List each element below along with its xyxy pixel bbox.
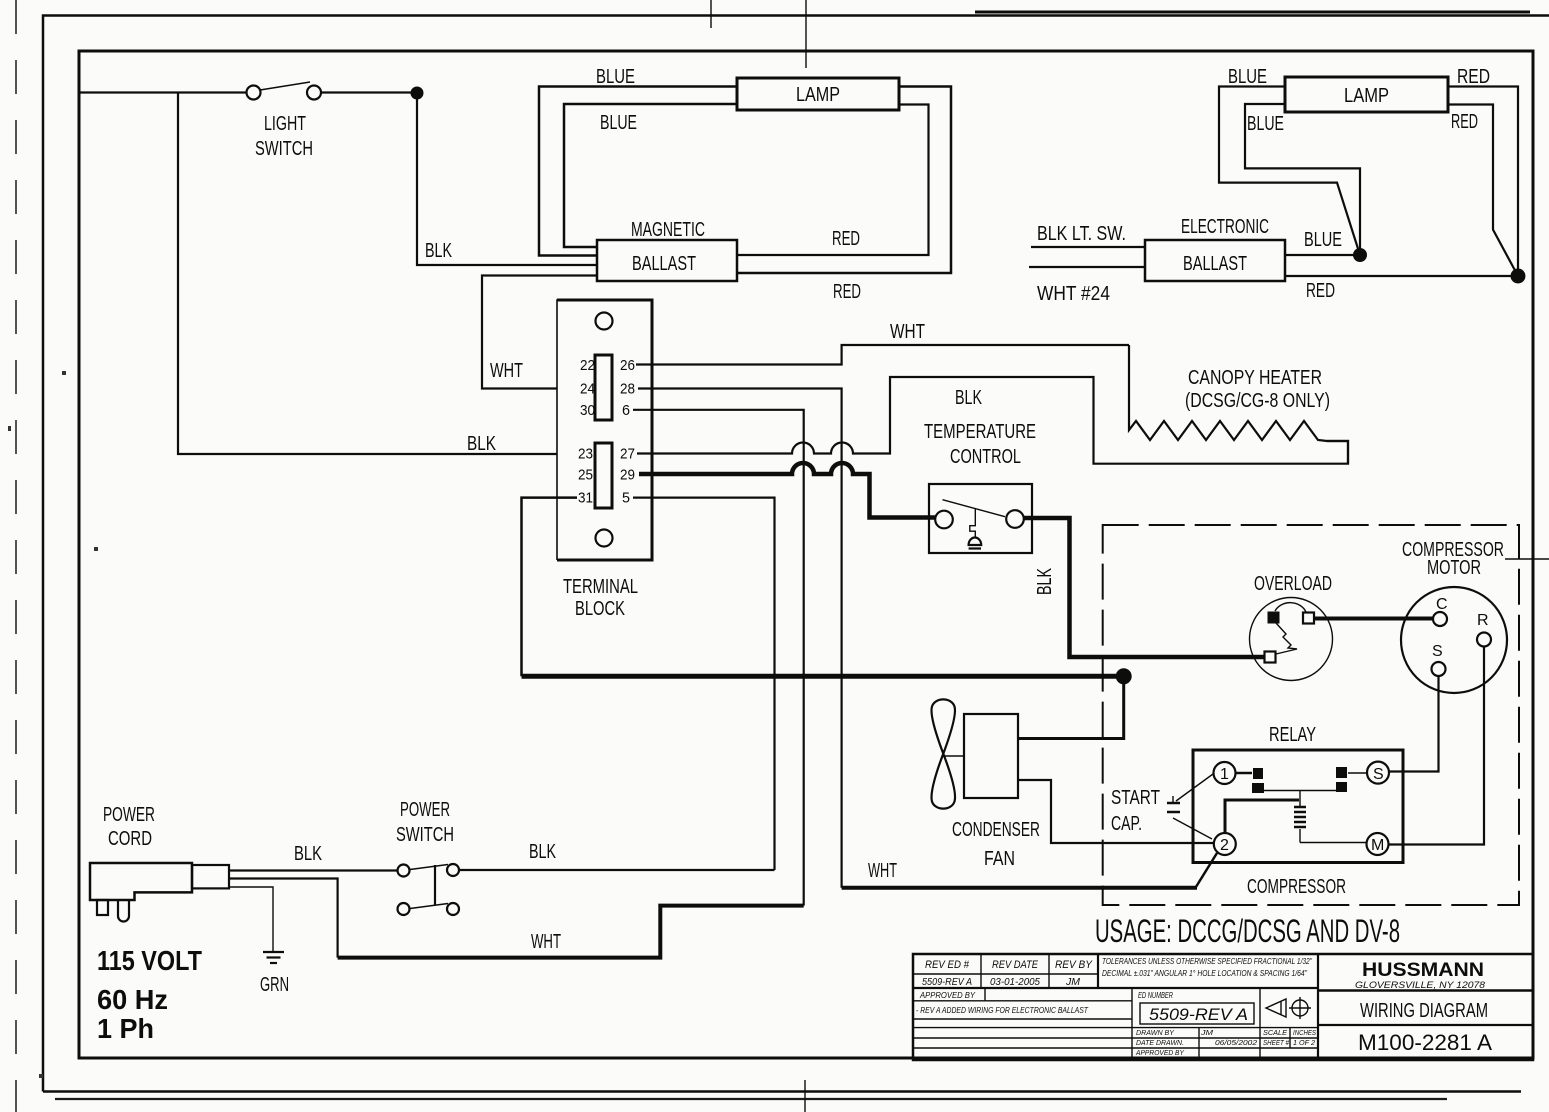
svg-text:M100-2281 A: M100-2281 A: [1358, 1030, 1492, 1055]
title block REV table values: [922, 977, 1081, 988]
label LIGHT SWITCH: [255, 113, 313, 160]
wire WHT magnetic ballast to pin 24: [482, 276, 597, 389]
svg-text:SHEET #: SHEET #: [1263, 1038, 1290, 1047]
svg-text:OVERLOAD: OVERLOAD: [1254, 573, 1332, 595]
svg-text:INCHES: INCHES: [1293, 1028, 1316, 1037]
power cord plug P1: [90, 863, 229, 922]
title block frame: [913, 954, 1533, 1060]
wire GRN power cord to ground: [229, 887, 273, 951]
relay contact 1 side: [1236, 768, 1264, 793]
svg-text:START: START: [1111, 787, 1160, 809]
junction dot light switch node: [411, 87, 424, 100]
svg-text:115 VOLT: 115 VOLT: [97, 945, 202, 976]
title block REV table headers: [925, 959, 1093, 971]
svg-text:BLUE: BLUE: [1228, 66, 1267, 88]
wire RED outer lamp1: [737, 87, 951, 274]
svg-text:1: 1: [1220, 766, 1229, 783]
wire heavy compressor common run: [522, 674, 1124, 679]
svg-text:1 Ph: 1 Ph: [97, 1013, 154, 1044]
svg-text:HUSSMANN: HUSSMANN: [1362, 960, 1484, 981]
svg-text:WHT: WHT: [531, 931, 561, 953]
scan specks: [8, 371, 98, 1078]
svg-text:LIGHT: LIGHT: [264, 113, 306, 135]
wire motor S to relay S: [1390, 676, 1439, 772]
svg-text:BLUE: BLUE: [600, 112, 637, 134]
svg-text:BLUE: BLUE: [1304, 229, 1342, 251]
title block projection symbol: [1266, 997, 1311, 1019]
svg-text:CONTROL: CONTROL: [950, 446, 1021, 468]
svg-text:MOTOR: MOTOR: [1427, 557, 1481, 579]
svg-text:WHT: WHT: [890, 321, 925, 343]
svg-text:C: C: [1436, 596, 1448, 613]
svg-text:25: 25: [578, 467, 593, 484]
svg-text:24: 24: [580, 381, 595, 398]
svg-text:DATE DRAWN.: DATE DRAWN.: [1136, 1038, 1184, 1047]
svg-text:CAP.: CAP.: [1111, 813, 1142, 835]
svg-text:BLUE: BLUE: [1247, 113, 1284, 135]
relay K1: [1193, 750, 1403, 863]
svg-text:POWER: POWER: [103, 804, 155, 826]
canopy heater element R1: [1129, 345, 1348, 464]
svg-text:CORD: CORD: [108, 828, 152, 850]
svg-text:WHT: WHT: [868, 860, 897, 882]
svg-text:06/05/2002: 06/05/2002: [1215, 1038, 1258, 1047]
svg-text:DECIMAL ±.031" ANGULAR 1° HOLE: DECIMAL ±.031" ANGULAR 1° HOLE LOCATION …: [1102, 969, 1308, 978]
svg-text:31: 31: [578, 490, 593, 507]
wire WHT pin 26 to canopy heater rail: [636, 345, 1129, 365]
junction dot red node lamp2: [1511, 269, 1526, 284]
relay contact bridge wire: [1264, 790, 1336, 792]
svg-text:BLK: BLK: [467, 433, 496, 455]
start capacitor C1: [1167, 774, 1213, 839]
svg-text:JM: JM: [1200, 1028, 1214, 1037]
svg-text:2: 2: [1220, 837, 1229, 854]
wire BLUE electronic ballast output: [1285, 254, 1360, 256]
svg-text:LAMP: LAMP: [1344, 85, 1389, 107]
relay coil: [1294, 791, 1306, 843]
svg-text:RELAY: RELAY: [1269, 724, 1316, 746]
svg-text:RED: RED: [832, 228, 860, 250]
wire BLUE outer lamp1: [539, 87, 737, 256]
wire light switch to junction: [321, 91, 417, 93]
svg-text:SWITCH: SWITCH: [255, 138, 313, 160]
wire BLK feed from left border to light switch: [80, 91, 247, 93]
wire pin 29 heavy to temperature control (with hops): [639, 463, 936, 518]
title block ED NUMBER cell: [1138, 991, 1254, 1024]
svg-text:USAGE: DCCG/DCSG AND DV-8: USAGE: DCCG/DCSG AND DV-8: [1095, 913, 1400, 949]
label START CAP.: [1111, 787, 1160, 835]
electronic ballast B2: [1145, 240, 1285, 281]
svg-text:S: S: [1432, 643, 1443, 660]
compressor motor M1: [1401, 587, 1507, 693]
svg-text:MAGNETIC: MAGNETIC: [631, 219, 705, 241]
wire pin 31 to compressor common: [522, 498, 578, 677]
svg-text:WIRING DIAGRAM: WIRING DIAGRAM: [1360, 1000, 1488, 1022]
wire pin 5 to power switch: [633, 498, 775, 870]
svg-text:TEMPERATURE: TEMPERATURE: [924, 421, 1036, 443]
svg-text:LAMP: LAMP: [796, 84, 840, 106]
wire overload to compressor motor C: [1315, 617, 1433, 621]
wire RED electronic ballast output: [1285, 275, 1518, 277]
wire compressor common node down to condenser fan: [1018, 676, 1124, 738]
svg-text:COMPRESSOR: COMPRESSOR: [1247, 876, 1346, 898]
svg-text:BLK: BLK: [955, 387, 982, 409]
wire pin 6 neutral run to power cord: [229, 410, 804, 958]
compressor dashed enclosure: [1103, 525, 1519, 905]
label COMPRESSOR MOTOR: [1402, 539, 1549, 579]
wire condenser fan to relay terminal 2: [1018, 780, 1214, 843]
svg-text:- REV A ADDED WIRING FOR ELECT: - REV A ADDED WIRING FOR ELECTRONIC BALL…: [916, 1006, 1089, 1015]
lamp L1: [737, 78, 899, 110]
wire RED inner lamp1: [737, 105, 929, 256]
wire WHT heavy run to relay terminal 2: [842, 886, 1197, 890]
svg-text:BLK LT. SW.: BLK LT. SW.: [1037, 223, 1126, 245]
wire BLK light switch branch down to terminal pin 23: [178, 93, 577, 455]
wire WHT #24 stub into electronic ballast: [1029, 266, 1145, 268]
svg-text:23: 23: [578, 446, 593, 463]
svg-text:APPROVED BY: APPROVED BY: [1135, 1048, 1185, 1057]
svg-text:R: R: [1477, 612, 1489, 629]
overload OL1: [1250, 598, 1333, 681]
svg-text:BLK: BLK: [425, 240, 452, 262]
relay contact S side: [1336, 767, 1367, 792]
svg-text:WHT #24: WHT #24: [1037, 283, 1110, 305]
svg-text:POWER: POWER: [400, 799, 450, 821]
svg-text:REV BY: REV BY: [1055, 959, 1093, 971]
label POWER SWITCH: [396, 799, 454, 846]
svg-text:JM: JM: [1065, 977, 1081, 988]
wire BLK temperature control to overload: [1023, 518, 1264, 657]
lamp L2: [1285, 77, 1448, 112]
svg-text:1 OF 2: 1 OF 2: [1293, 1038, 1316, 1047]
terminal block TB1: [557, 300, 652, 560]
svg-text:SCALE: SCALE: [1263, 1028, 1288, 1037]
svg-text:5509-REV A: 5509-REV A: [922, 977, 972, 988]
svg-text:ELECTRONIC: ELECTRONIC: [1181, 216, 1269, 238]
relay terminal 2 to coil wire: [1225, 800, 1299, 833]
svg-text:29: 29: [620, 467, 635, 484]
wire motor R to relay M: [1389, 647, 1485, 845]
HUSSMANN logo: [1355, 960, 1485, 990]
svg-text:RED: RED: [1457, 66, 1490, 88]
ground symbol GRN: [263, 952, 284, 963]
wire RED inner lamp2: [1448, 105, 1518, 277]
svg-text:27: 27: [620, 446, 635, 463]
svg-text:BLOCK: BLOCK: [575, 598, 625, 620]
wire BLUE outer lamp2: [1219, 87, 1360, 256]
svg-text:TERMINAL: TERMINAL: [563, 576, 638, 598]
title block DRAWN BY row: [1136, 1028, 1316, 1037]
wire BLK power switch to pin 5 riser: [459, 869, 775, 871]
wire BLK junction down to magnetic ballast: [417, 93, 597, 265]
svg-text:(DCSG/CG-8 ONLY): (DCSG/CG-8 ONLY): [1185, 390, 1330, 412]
label TEMPERATURE CONTROL: [924, 421, 1036, 468]
title block DATE DRAWN row: [1136, 1038, 1316, 1047]
temperature control TC1: [929, 484, 1032, 553]
svg-text:TOLERANCES UNLESS OTHERWISE SP: TOLERANCES UNLESS OTHERWISE SPECIFIED FR…: [1102, 957, 1313, 966]
svg-text:GLOVERSVILLE, NY 12078: GLOVERSVILLE, NY 12078: [1355, 980, 1485, 990]
svg-text:6: 6: [622, 402, 630, 419]
svg-text:BLK: BLK: [529, 841, 556, 863]
label CANOPY HEATER: [1185, 367, 1330, 412]
svg-text:M: M: [1371, 837, 1384, 854]
condenser fan M2: [932, 699, 1018, 808]
wire RED outer lamp2: [1448, 87, 1518, 277]
svg-text:GRN: GRN: [260, 974, 289, 996]
wire BLUE inner lamp2: [1245, 104, 1360, 255]
svg-text:RED: RED: [1306, 280, 1335, 302]
relay coil to M wire: [1300, 842, 1367, 844]
svg-text:REV DATE: REV DATE: [992, 959, 1039, 971]
junction dot blue node lamp2: [1353, 248, 1367, 262]
svg-text:BLK: BLK: [294, 843, 322, 865]
power switch SW2: [398, 864, 460, 915]
wire BLK power cord to switch: [229, 869, 398, 871]
title block tolerances note: [1102, 957, 1313, 978]
svg-text:26: 26: [620, 357, 635, 374]
svg-text:60 Hz: 60 Hz: [97, 984, 168, 1015]
wire BLK LT. SW. stub into electronic ballast: [1031, 246, 1145, 248]
svg-text:WHT: WHT: [490, 360, 523, 382]
label POWER CORD: [103, 804, 155, 850]
svg-text:BLK: BLK: [1034, 568, 1056, 595]
label CONDENSER FAN: [952, 819, 1040, 870]
wire pin 27 to canopy heater return (with hops): [637, 377, 1348, 464]
svg-text:22: 22: [580, 357, 595, 374]
svg-text:28: 28: [620, 381, 635, 398]
registration tick top: [805, 0, 807, 68]
svg-text:30: 30: [580, 402, 595, 419]
light switch SW1: [247, 82, 322, 100]
svg-text:5509-REV A: 5509-REV A: [1149, 1005, 1248, 1024]
svg-text:BLUE: BLUE: [596, 66, 635, 88]
svg-text:RED: RED: [1451, 111, 1478, 133]
svg-text:DRAWN BY: DRAWN BY: [1136, 1028, 1175, 1037]
svg-text:CONDENSER: CONDENSER: [952, 819, 1040, 841]
svg-text:BALLAST: BALLAST: [632, 253, 696, 275]
svg-text:REV ED #: REV ED #: [925, 959, 970, 971]
svg-text:APPROVED BY: APPROVED BY: [919, 991, 976, 1000]
svg-text:5: 5: [622, 490, 630, 507]
svg-text:SWITCH: SWITCH: [396, 824, 454, 846]
label TERMINAL BLOCK: [563, 576, 638, 620]
wire BLUE inner lamp1: [564, 104, 737, 247]
junction dot compressor common node: [1116, 668, 1132, 684]
svg-text:S: S: [1373, 766, 1384, 783]
magnetic ballast B1: [597, 240, 737, 281]
registration tick bottom: [804, 1080, 806, 1112]
svg-text:BALLAST: BALLAST: [1183, 253, 1247, 275]
label 115 VOLT 60 Hz 1 Ph: [97, 945, 202, 1044]
svg-text:RED: RED: [833, 281, 861, 303]
svg-text:03-01-2005: 03-01-2005: [990, 977, 1040, 988]
svg-text:CANOPY HEATER: CANOPY HEATER: [1188, 367, 1322, 389]
wire pin 28 down to relay WHT run: [638, 389, 842, 888]
svg-text:FAN: FAN: [984, 848, 1015, 870]
svg-text:ED NUMBER: ED NUMBER: [1138, 991, 1173, 1000]
